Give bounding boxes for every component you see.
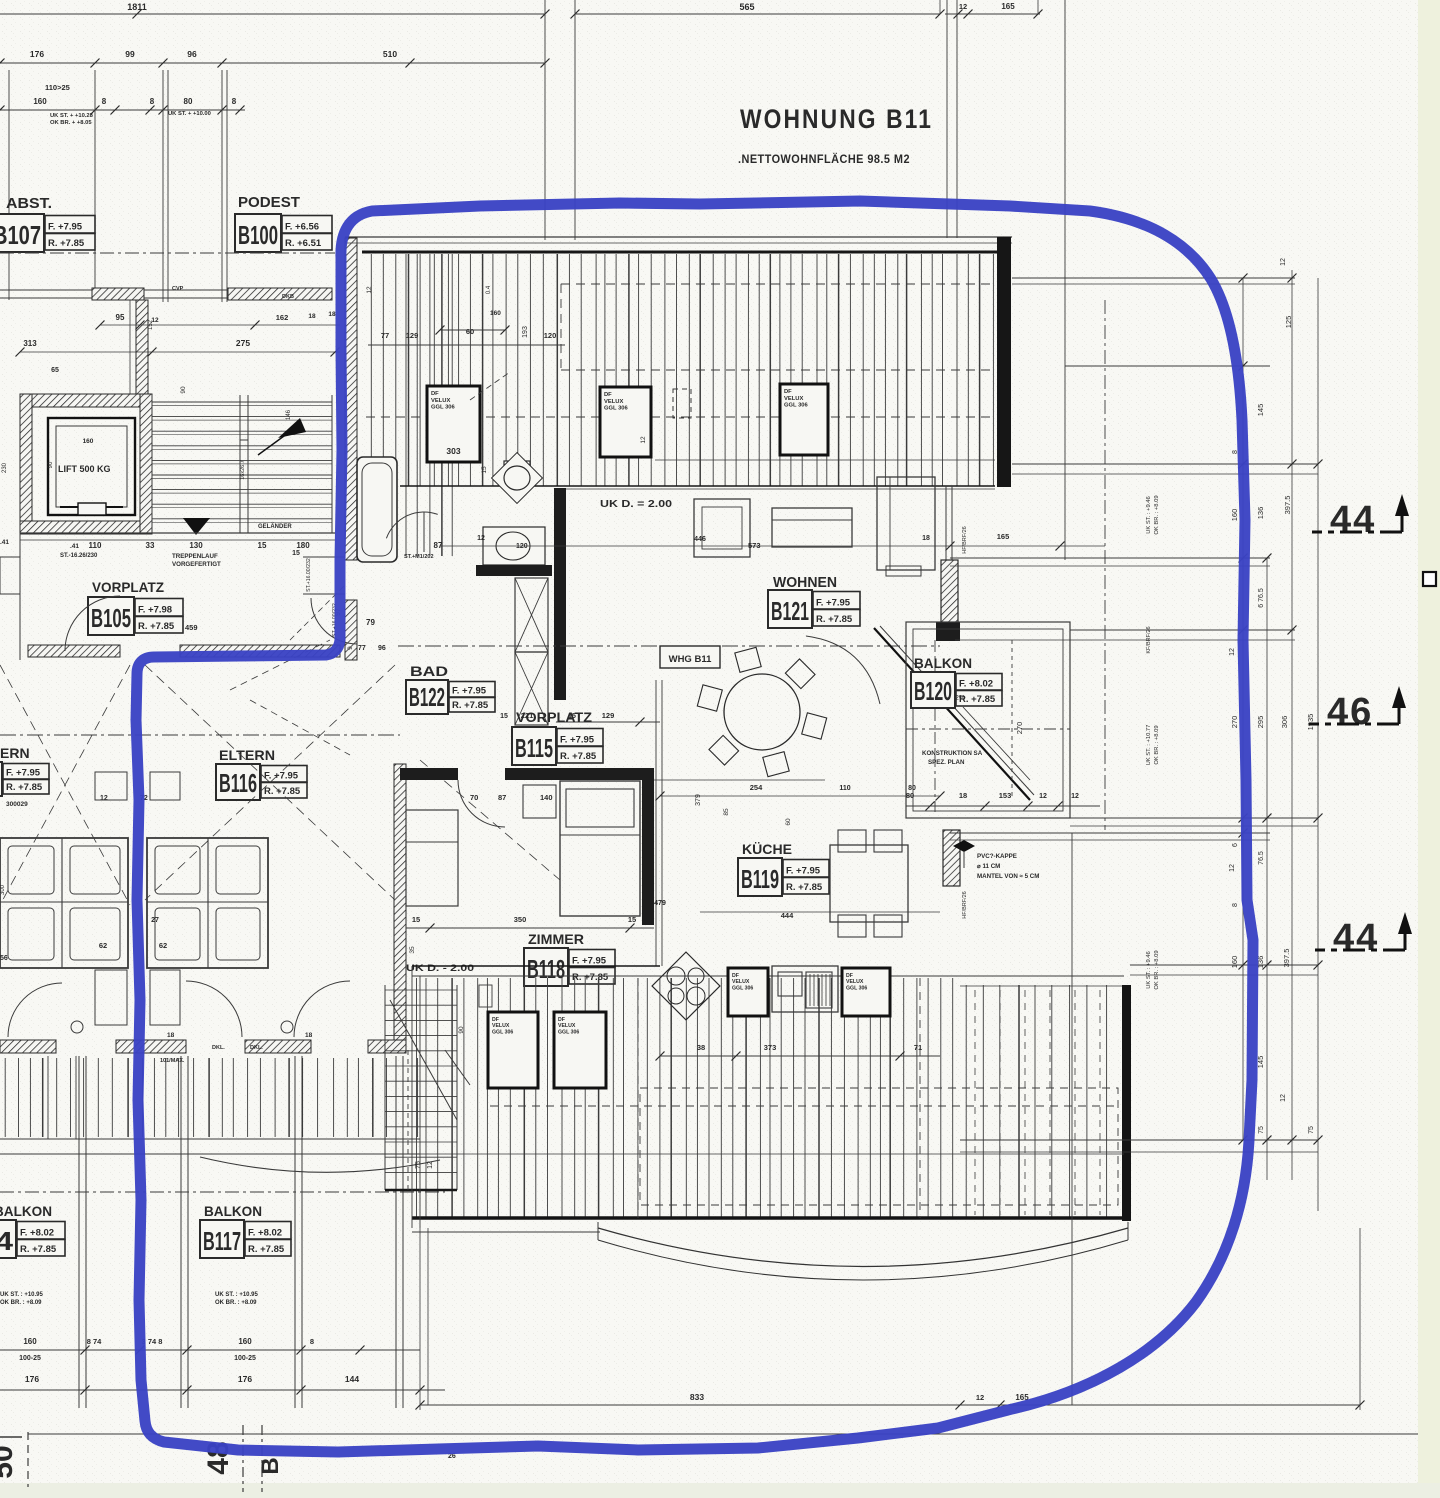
svg-text:62: 62 xyxy=(99,941,107,950)
svg-text:85: 85 xyxy=(723,808,730,816)
svg-text:479: 479 xyxy=(654,900,666,907)
svg-text:DF: DF xyxy=(492,1017,499,1023)
svg-text:DF: DF xyxy=(732,973,739,979)
svg-text:R. +7.85: R. +7.85 xyxy=(572,972,609,983)
dash-dot centerline bedrooms xyxy=(0,734,400,736)
svg-text:F. +8.02: F. +8.02 xyxy=(959,679,993,690)
svg-text:MANTEL VON ≈ 5 CM: MANTEL VON ≈ 5 CM xyxy=(977,873,1039,880)
svg-text:459: 459 xyxy=(185,623,198,632)
balcony divider walls xyxy=(78,1056,80,1408)
svg-text:WOHNEN: WOHNEN xyxy=(773,575,837,591)
svg-text:UK ST. : +10.77: UK ST. : +10.77 xyxy=(1146,725,1152,766)
svg-text:162: 162 xyxy=(276,313,289,322)
wall B115/B118 dark band xyxy=(400,768,458,780)
svg-text:373: 373 xyxy=(764,1043,777,1052)
svg-text:CVP: CVP xyxy=(172,286,184,292)
svg-text:77: 77 xyxy=(358,645,366,652)
svg-text:87: 87 xyxy=(434,541,443,550)
svg-text:90: 90 xyxy=(458,1026,465,1034)
svg-text:B117: B117 xyxy=(203,1226,241,1256)
svg-text:DF: DF xyxy=(431,391,439,397)
svg-text:B119: B119 xyxy=(741,864,779,894)
svg-text:397.5: 397.5 xyxy=(1282,949,1291,968)
svg-text:GGL 306: GGL 306 xyxy=(784,403,809,409)
svg-text:152: 152 xyxy=(148,319,154,330)
top hatched wall band xyxy=(0,289,95,291)
svg-text:306: 306 xyxy=(1280,716,1289,729)
svg-text:F. +7.95: F. +7.95 xyxy=(572,956,607,967)
bath door arc xyxy=(386,512,437,538)
svg-text:65: 65 xyxy=(51,367,59,374)
svg-text:GGL 306: GGL 306 xyxy=(431,405,456,411)
svg-text:295: 295 xyxy=(1256,716,1265,729)
balcony bow front xyxy=(200,1157,440,1172)
side table xyxy=(523,785,556,818)
sofa long xyxy=(772,508,852,547)
svg-text:9: 9 xyxy=(347,646,354,650)
svg-text:18: 18 xyxy=(328,311,336,318)
band B right dashed verticals xyxy=(974,990,976,1215)
svg-text:12: 12 xyxy=(1280,258,1287,266)
svg-text:GGL 306: GGL 306 xyxy=(558,1029,579,1035)
svg-text:OK BR. + +8.05: OK BR. + +8.05 xyxy=(50,120,92,126)
svg-text:R. +7.85: R. +7.85 xyxy=(48,238,85,249)
svg-text:ELTERN: ELTERN xyxy=(219,747,275,763)
konstruktion leader xyxy=(963,707,1030,780)
band B inner dashed xyxy=(637,978,639,1218)
svg-text:VELUX: VELUX xyxy=(431,398,450,404)
svg-text:160: 160 xyxy=(1230,509,1239,522)
svg-text:80: 80 xyxy=(184,97,193,106)
svg-text:62: 62 xyxy=(159,941,167,950)
svg-text:KÜCHE: KÜCHE xyxy=(742,841,792,857)
wardrobe boxes with X xyxy=(515,578,548,652)
svg-text:B121: B121 xyxy=(771,596,809,626)
apartment west boundary wall xyxy=(345,238,357,560)
svg-text:87: 87 xyxy=(498,793,506,802)
svg-text:35: 35 xyxy=(409,946,416,954)
kitchen velux 4 xyxy=(728,968,768,1016)
svg-text:110>25: 110>25 xyxy=(45,83,70,92)
svg-text:WHG B11: WHG B11 xyxy=(669,654,712,665)
svg-text:71: 71 xyxy=(914,1043,922,1052)
nightstand rects xyxy=(95,772,127,800)
svg-text:8 74: 8 74 xyxy=(87,1337,102,1346)
svg-text:DF: DF xyxy=(604,392,612,398)
svg-text:F. +7.95: F. +7.95 xyxy=(452,686,487,697)
svg-text:56: 56 xyxy=(0,955,8,962)
bow arc bottom xyxy=(598,1228,1128,1267)
svg-text:350: 350 xyxy=(514,915,527,924)
svg-text:15: 15 xyxy=(292,550,300,557)
svg-text:DKL.: DKL. xyxy=(212,1045,225,1051)
dark wall below basin xyxy=(476,565,552,576)
svg-text:KONSTRUKTION SA: KONSTRUKTION SA xyxy=(922,750,983,757)
svg-text:R. +7.85: R. +7.85 xyxy=(138,621,175,632)
svg-text:96: 96 xyxy=(187,49,197,59)
band B rail extension line xyxy=(420,1153,1124,1155)
corridor wall dark vertical xyxy=(554,488,566,700)
svg-text:1935: 1935 xyxy=(1306,714,1315,731)
svg-text:VORGEFERTIGT: VORGEFERTIGT xyxy=(172,561,221,568)
svg-text:ST.+16.00/232: ST.+16.00/232 xyxy=(306,558,312,592)
left lines below band xyxy=(411,966,413,1228)
svg-text:BAD: BAD xyxy=(410,663,448,679)
long verticals right zone xyxy=(1071,833,1073,1405)
bottom wall bedrooms with doors xyxy=(0,1040,56,1053)
kitchen counter: stove xyxy=(652,952,720,1020)
svg-text:8: 8 xyxy=(310,1337,314,1346)
svg-text:75: 75 xyxy=(415,1161,422,1169)
svg-text:F. +7.95: F. +7.95 xyxy=(786,866,821,877)
svg-text:DKL.: DKL. xyxy=(250,1045,263,1051)
svg-text:UK ST. : +10.95: UK ST. : +10.95 xyxy=(215,1292,259,1298)
velux window 303 xyxy=(427,386,480,462)
svg-text:176: 176 xyxy=(25,1374,39,1384)
upper-left small dims xyxy=(100,324,340,326)
svg-text:R. +7.85: R. +7.85 xyxy=(6,782,43,793)
bed left room (cut) xyxy=(0,838,128,968)
toilet xyxy=(504,461,530,471)
zimmer dims xyxy=(406,927,654,929)
left outer wall lower xyxy=(19,533,21,660)
svg-text:R. +7.85: R. +7.85 xyxy=(786,882,823,893)
ticks right zone xyxy=(1239,274,1248,283)
svg-text:12: 12 xyxy=(1280,1094,1287,1102)
svg-text:UK ST. + +10.00: UK ST. + +10.00 xyxy=(168,111,211,117)
dim row 176/99/96/510 xyxy=(0,62,545,64)
roof band A stripes xyxy=(370,254,372,486)
svg-text:565: 565 xyxy=(739,2,754,12)
svg-text:0.4: 0.4 xyxy=(486,285,492,294)
small rect near stair xyxy=(479,985,492,1007)
svg-text:12: 12 xyxy=(366,286,373,294)
svg-text:146: 146 xyxy=(286,409,292,420)
svg-text:160: 160 xyxy=(83,438,94,445)
svg-text:R. +7.85: R. +7.85 xyxy=(20,1244,57,1255)
bottom dim 833 xyxy=(420,1404,1360,1406)
top dimension line 1811 xyxy=(0,13,545,15)
svg-text:GGL 306: GGL 306 xyxy=(732,985,753,991)
svg-text:LIFT 500 KG: LIFT 500 KG xyxy=(58,464,111,474)
thin line under band right xyxy=(655,459,995,461)
kitchen velux 5 xyxy=(842,968,890,1016)
svg-text:B122: B122 xyxy=(409,682,445,712)
lift car xyxy=(48,418,135,515)
svg-text:OK BR. : +8.09: OK BR. : +8.09 xyxy=(1154,725,1160,764)
dash-dot balcony centerline xyxy=(0,1191,445,1193)
round dining table xyxy=(724,674,800,750)
svg-text:160: 160 xyxy=(1230,956,1239,969)
svg-text:B107: B107 xyxy=(0,220,41,250)
svg-text:2%: 2% xyxy=(955,695,965,702)
svg-text:15: 15 xyxy=(481,466,488,474)
svg-text:140: 140 xyxy=(540,793,553,802)
svg-text:VELUX: VELUX xyxy=(492,1023,510,1029)
svg-text:DKB: DKB xyxy=(282,294,294,300)
svg-text:446: 446 xyxy=(694,536,706,543)
band B right sparse section xyxy=(965,985,967,1218)
svg-text:12: 12 xyxy=(100,795,108,802)
svg-text:R. +7.85: R. +7.85 xyxy=(452,700,489,711)
svg-text:510: 510 xyxy=(383,49,397,59)
svg-text:144: 144 xyxy=(345,1374,359,1384)
svg-text:OK BR. : +8.09: OK BR. : +8.09 xyxy=(1154,495,1160,534)
svg-text:99: 99 xyxy=(125,49,135,59)
svg-text:110: 110 xyxy=(839,785,850,792)
svg-text:GGL 306: GGL 306 xyxy=(492,1029,513,1035)
band B stripes dense xyxy=(416,978,418,1218)
svg-text:.NETTOWOHNFLÄCHE 98.5 M2: .NETTOWOHNFLÄCHE 98.5 M2 xyxy=(738,151,910,166)
svg-text:60: 60 xyxy=(785,818,792,826)
svg-text:18: 18 xyxy=(959,791,967,800)
WHG B11 box xyxy=(660,646,720,668)
diagonal dashes vorplatz b105 xyxy=(230,640,330,690)
svg-text:18: 18 xyxy=(167,1032,175,1039)
svg-text:270: 270 xyxy=(1015,722,1024,735)
svg-text:B105: B105 xyxy=(91,603,131,633)
east wall wohnen to balcony xyxy=(945,486,947,560)
svg-text:12: 12 xyxy=(1229,864,1236,872)
svg-text:PODEST: PODEST xyxy=(238,194,300,211)
svg-text:VELUX: VELUX xyxy=(558,1023,576,1029)
svg-text:176: 176 xyxy=(238,1374,252,1384)
bed B116 xyxy=(147,838,268,968)
svg-text:70: 70 xyxy=(470,793,478,802)
stair down arrow xyxy=(183,518,210,535)
band B right edge thick xyxy=(1122,985,1131,1221)
vertical guide lines top-left xyxy=(8,70,10,300)
svg-text:12: 12 xyxy=(477,535,485,542)
svg-text:6: 6 xyxy=(1232,843,1239,847)
svg-text:8: 8 xyxy=(232,97,237,106)
bathtub xyxy=(357,457,397,562)
zimmer bed xyxy=(560,781,640,916)
svg-text:⌀ 11 CM: ⌀ 11 CM xyxy=(977,863,1000,870)
svg-text:15: 15 xyxy=(500,713,508,720)
roof band A bottom edge xyxy=(400,485,995,487)
svg-text:313: 313 xyxy=(23,339,37,348)
svg-text:ABST.: ABST. xyxy=(6,195,52,212)
svg-text:WOHNUNG B11: WOHNUNG B11 xyxy=(740,104,933,134)
svg-text:R. +7.85: R. +7.85 xyxy=(816,614,853,625)
svg-text:254: 254 xyxy=(750,783,763,792)
svg-text:176: 176 xyxy=(30,49,44,59)
svg-text:ST.-16.26/230: ST.-16.26/230 xyxy=(60,553,98,559)
svg-text:PVC?-KAPPE: PVC?-KAPPE xyxy=(977,853,1017,860)
svg-text:B100: B100 xyxy=(238,220,278,250)
svg-text:75: 75 xyxy=(1308,1126,1315,1134)
svg-text:B120: B120 xyxy=(914,676,952,706)
balkon dash-dot lines xyxy=(906,728,1070,730)
svg-text:UK D. = 2.00: UK D. = 2.00 xyxy=(600,499,673,510)
svg-text:R. +7.85: R. +7.85 xyxy=(264,786,301,797)
svg-text:ST.+M1/202: ST.+M1/202 xyxy=(404,554,434,560)
svg-text:160: 160 xyxy=(238,1337,252,1346)
svg-text:BALKON: BALKON xyxy=(204,1203,262,1219)
svg-text:110: 110 xyxy=(89,541,102,550)
svg-text:F. +8.02: F. +8.02 xyxy=(20,1228,54,1239)
svg-text:303: 303 xyxy=(446,446,460,456)
svg-text:GGL 306: GGL 306 xyxy=(846,985,867,991)
velux window 3 xyxy=(780,384,828,455)
elevator shaft walls xyxy=(20,394,152,407)
svg-text:80: 80 xyxy=(906,791,914,800)
svg-text:12: 12 xyxy=(976,1393,984,1402)
svg-text:15: 15 xyxy=(412,915,420,924)
svg-text:VORPLATZ: VORPLATZ xyxy=(92,579,164,595)
svg-text:44: 44 xyxy=(1330,499,1376,541)
svg-text:300029: 300029 xyxy=(6,801,28,808)
svg-text:F. +6.56: F. +6.56 xyxy=(285,222,319,233)
svg-text:60: 60 xyxy=(466,327,474,336)
svg-text:44: 44 xyxy=(1333,917,1379,959)
svg-text:TREPPENLAUF: TREPPENLAUF xyxy=(172,553,218,560)
svg-text:120: 120 xyxy=(516,543,528,550)
svg-text:F. +7.95: F. +7.95 xyxy=(560,735,595,746)
svg-text:80: 80 xyxy=(908,785,916,792)
svg-text:ERN: ERN xyxy=(0,745,30,761)
svg-text:46: 46 xyxy=(1327,691,1373,733)
bottom border line xyxy=(28,1433,1418,1435)
svg-text:UK ST. : +10.95: UK ST. : +10.95 xyxy=(0,1292,44,1298)
sofa corner xyxy=(877,477,935,570)
svg-text:573: 573 xyxy=(748,541,761,550)
svg-text:ZIMMER: ZIMMER xyxy=(528,931,584,947)
svg-text:F. +7.95: F. +7.95 xyxy=(264,771,299,782)
dash-dot boundary top-left xyxy=(0,252,335,254)
svg-text:.41: .41 xyxy=(70,543,79,550)
svg-text:18: 18 xyxy=(308,313,316,320)
svg-text:165: 165 xyxy=(1001,2,1015,11)
svg-text:12: 12 xyxy=(1071,793,1079,800)
svg-text:397.5: 397.5 xyxy=(1283,496,1292,515)
svg-text:GELÄNDER: GELÄNDER xyxy=(258,523,292,530)
wall between B116 and B118 xyxy=(394,764,406,1040)
svg-text:90: 90 xyxy=(48,461,54,468)
svg-text:100-25: 100-25 xyxy=(19,1355,41,1362)
svg-text:100-25: 100-25 xyxy=(234,1355,256,1362)
bath corner stripes xyxy=(405,254,407,556)
svg-text:R. +7.85: R. +7.85 xyxy=(560,751,597,762)
velux windows bottom band xyxy=(488,1012,538,1088)
corridor east wall lines xyxy=(655,680,657,966)
svg-text:6 76.5: 6 76.5 xyxy=(1258,588,1265,608)
kitchen sink unit xyxy=(772,966,838,1012)
south hatched wall below balkon xyxy=(943,830,960,886)
wall stub vertical below band xyxy=(136,300,148,396)
blue highlighter loop xyxy=(136,201,1253,1452)
svg-text:F. +7.95: F. +7.95 xyxy=(816,598,851,609)
band B bottom edge thick xyxy=(412,1216,1128,1220)
svg-text:12: 12 xyxy=(427,1161,434,1169)
svg-text:F. +8.02: F. +8.02 xyxy=(248,1228,282,1239)
svg-text:B118: B118 xyxy=(527,954,565,984)
svg-text:50: 50 xyxy=(0,1445,19,1478)
svg-text:833: 833 xyxy=(690,1392,704,1402)
svg-text:HF/BRF/26: HF/BRF/26 xyxy=(962,526,968,554)
svg-text:95: 95 xyxy=(116,313,125,322)
left balcony roof stripes xyxy=(4,1058,6,1137)
armchair xyxy=(694,499,750,557)
svg-text:DF: DF xyxy=(784,389,792,395)
svg-text:VORPLATZ: VORPLATZ xyxy=(516,710,592,725)
svg-text:18: 18 xyxy=(305,1032,313,1039)
svg-text:R. +7.85: R. +7.85 xyxy=(248,1244,285,1255)
svg-text:DF: DF xyxy=(846,973,853,979)
svg-text:SPEZ. PLAN: SPEZ. PLAN xyxy=(928,759,965,766)
svg-text:BALKON: BALKON xyxy=(0,1203,52,1219)
top dimension line 565 xyxy=(575,13,940,15)
svg-text:12: 12 xyxy=(640,436,647,444)
svg-text:VELUX: VELUX xyxy=(784,396,803,402)
svg-text:300: 300 xyxy=(0,884,6,895)
svg-text:VELUX: VELUX xyxy=(846,979,864,985)
svg-text:160: 160 xyxy=(490,310,501,317)
svg-text:R. +6.51: R. +6.51 xyxy=(285,238,322,249)
svg-text:12: 12 xyxy=(1039,793,1047,800)
svg-text:180: 180 xyxy=(296,541,310,550)
stairs xyxy=(152,401,332,403)
svg-text:15: 15 xyxy=(628,915,636,924)
svg-text:F. +7.98: F. +7.98 xyxy=(138,605,172,616)
diagonal dashed ceiling lines left rooms xyxy=(0,665,130,905)
svg-text:136: 136 xyxy=(1256,507,1265,520)
svg-text:270: 270 xyxy=(1230,716,1239,729)
svg-text:B116: B116 xyxy=(219,768,257,798)
dims below kitchen xyxy=(660,1055,940,1057)
svg-text:UK ST. : +9.46: UK ST. : +9.46 xyxy=(1146,496,1152,534)
svg-text:GGL 306: GGL 306 xyxy=(604,406,629,412)
svg-text:27: 27 xyxy=(151,917,159,924)
svg-text:160: 160 xyxy=(23,1337,37,1346)
svg-text:UK ST. + +10.28: UK ST. + +10.28 xyxy=(50,113,94,119)
small dashed box in band xyxy=(673,389,691,418)
svg-text:18: 18 xyxy=(922,535,930,542)
svg-text:114: 114 xyxy=(0,1226,14,1256)
svg-text:12: 12 xyxy=(1229,648,1236,656)
band A horizontal dim line xyxy=(368,344,565,346)
svg-text:VELUX: VELUX xyxy=(732,979,750,985)
svg-text:160: 160 xyxy=(33,97,47,106)
line below stairs xyxy=(20,532,335,534)
small dim texts near B105 diagonal xyxy=(290,585,345,640)
svg-text:76.5: 76.5 xyxy=(1258,851,1265,865)
svg-text:F. +7.95: F. +7.95 xyxy=(6,768,41,779)
top dimension line 12/165 xyxy=(945,13,1040,15)
dash-dot centerline wohnen xyxy=(398,645,940,647)
velux window 2 xyxy=(600,387,651,457)
svg-text:HF/BRF/26: HF/BRF/26 xyxy=(962,891,968,919)
band A right end wall xyxy=(997,237,1011,487)
svg-text:120: 120 xyxy=(544,331,557,340)
svg-text:UK D. - 2.00: UK D. - 2.00 xyxy=(406,963,474,974)
svg-text:165: 165 xyxy=(997,532,1010,541)
dim row 160/8/8/80/8 xyxy=(0,109,245,111)
small square right edge xyxy=(1423,572,1436,586)
vertical lines top-middle xyxy=(544,0,546,240)
apartment entry door arc xyxy=(311,598,357,644)
svg-text:BALKON: BALKON xyxy=(914,655,972,671)
roof band A top edge thick xyxy=(362,251,998,254)
svg-text:130: 130 xyxy=(189,541,203,550)
washbasin xyxy=(483,527,545,565)
balcony rail lines xyxy=(0,1138,420,1140)
svg-text:75: 75 xyxy=(1258,1126,1265,1134)
svg-text:OK BR. : +8.09: OK BR. : +8.09 xyxy=(0,1300,42,1306)
svg-text:90: 90 xyxy=(180,386,187,394)
svg-text:B115: B115 xyxy=(515,733,553,763)
